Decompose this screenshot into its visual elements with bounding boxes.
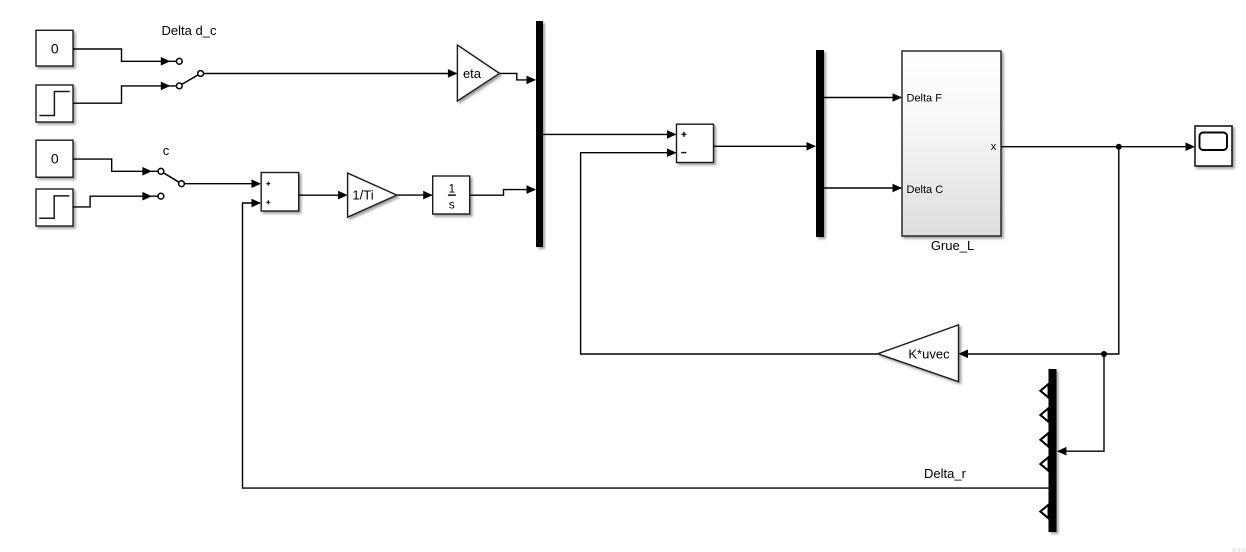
junction node on K*uvec wire [1101, 351, 1107, 357]
step block (top) [36, 85, 73, 122]
unconnected port arrow 5 [1040, 505, 1048, 519]
gain 1/Ti [348, 173, 397, 217]
wire: step(top) to switch1 input 2 [73, 82, 177, 104]
wire: junction down to selector input [1057, 354, 1104, 456]
selector bar (flipped demux) [1049, 369, 1057, 532]
wire: switch1 to gain eta [204, 69, 458, 78]
scope block [1195, 126, 1232, 166]
wire: junction down to K*uvec node [1104, 147, 1119, 354]
svg-text:eta: eta [463, 66, 482, 81]
wire: Grue_L x output to scope [1001, 142, 1195, 151]
svg-text:Delta F: Delta F [907, 93, 943, 105]
gain eta [457, 45, 499, 101]
wire: sum1 to gain 1/Ti [299, 191, 348, 200]
svg-text:K*uvec: K*uvec [908, 347, 950, 362]
step block (bottom) [36, 189, 73, 226]
unconnected port arrow 3 [1040, 433, 1048, 447]
sum block 2 (+ -) [677, 124, 714, 162]
wire: gain 1/Ti to integrator [397, 191, 433, 200]
canvas resize grips bottom right [1232, 548, 1245, 552]
wire: integrator to mux [470, 185, 536, 195]
svg-text:0: 0 [51, 40, 59, 56]
svg-text:0: 0 [51, 151, 59, 167]
wire: constant(bottom) to switch2 input 1 [73, 159, 158, 176]
wire: feedback K*uvec to sum2 minus input [581, 148, 878, 354]
svg-text:1/Ti: 1/Ti [352, 188, 373, 203]
svg-text:c: c [163, 143, 170, 158]
svg-text:Delta C: Delta C [907, 184, 944, 196]
subsystem Grue_L [902, 51, 1001, 236]
junction node on scope wire [1116, 144, 1122, 150]
wire: mux to sum2 [543, 130, 677, 139]
mux bar [536, 21, 543, 247]
svg-text:Delta d_c: Delta d_c [162, 23, 217, 38]
unconnected port arrow 1 [1040, 384, 1048, 398]
constant block "0" (bottom) [36, 140, 73, 177]
svg-text:Delta_r: Delta_r [924, 466, 967, 481]
unconnected port arrow 4 [1040, 457, 1048, 471]
wire: sum2 to demux [714, 142, 817, 151]
wire: selector out to sum1 second input (Delta_r feedback) [243, 199, 1049, 488]
wire: step(bottom) to switch2 input 2 [73, 192, 158, 207]
svg-text:s: s [449, 198, 455, 212]
integrator 1/s [433, 176, 470, 214]
svg-text:1: 1 [448, 182, 455, 196]
svg-text:x: x [991, 141, 997, 153]
wire: demux out1 to Grue_L Delta F [824, 93, 902, 102]
unconnected port arrow 2 [1040, 408, 1048, 422]
svg-text:Grue_L: Grue_L [931, 238, 974, 253]
wire: switch2 to sum1 [184, 179, 261, 188]
wire: junction to gain K*uvec [959, 350, 1105, 359]
manual switch 2 (c) [158, 168, 184, 199]
sum block 1 (+ +) [261, 173, 299, 212]
manual switch 1 (Delta d_c) [176, 58, 203, 88]
wire: constant(top) to switch1 input 1 [73, 49, 177, 66]
gain K*uvec [878, 325, 959, 382]
wire: gain eta to mux [499, 73, 536, 84]
constant block "0" (top) [36, 30, 73, 66]
wire: demux out2 to Grue_L Delta C [824, 184, 902, 193]
demux bar [816, 50, 824, 237]
